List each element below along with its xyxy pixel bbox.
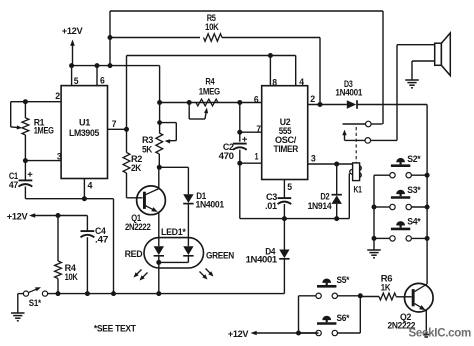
- svg-text:.01: .01: [265, 201, 278, 212]
- svg-text:1MEG: 1MEG: [34, 126, 54, 137]
- svg-text:2K: 2K: [131, 163, 141, 174]
- svg-text:.47: .47: [95, 235, 108, 246]
- svg-text:1K: 1K: [381, 283, 391, 294]
- svg-text:S2*: S2*: [407, 154, 421, 165]
- svg-text:1MEG: 1MEG: [199, 87, 220, 98]
- svg-text:47: 47: [9, 180, 18, 191]
- svg-text:S3*: S3*: [407, 185, 421, 196]
- svg-text:6: 6: [254, 94, 259, 105]
- svg-text:S1*: S1*: [29, 298, 42, 309]
- svg-text:3: 3: [311, 154, 316, 165]
- svg-text:+12V: +12V: [7, 212, 28, 223]
- svg-text:2N2222: 2N2222: [125, 222, 151, 233]
- svg-text:2: 2: [55, 91, 60, 102]
- svg-text:K1: K1: [354, 184, 363, 195]
- svg-text:+12V: +12V: [62, 26, 83, 37]
- svg-text:SeekIC.com: SeekIC.com: [409, 326, 472, 340]
- svg-text:GREEN: GREEN: [206, 251, 234, 262]
- svg-text:10K: 10K: [205, 22, 219, 33]
- svg-text:5K: 5K: [142, 145, 152, 156]
- svg-text:*SEE TEXT: *SEE TEXT: [94, 324, 136, 335]
- svg-text:LED1*: LED1*: [161, 227, 186, 238]
- svg-text:TIMER: TIMER: [274, 144, 299, 155]
- svg-text:3: 3: [57, 152, 62, 163]
- svg-text:7: 7: [256, 124, 260, 135]
- svg-text:S4*: S4*: [407, 217, 421, 228]
- svg-text:10K: 10K: [65, 272, 78, 283]
- svg-text:1N914: 1N914: [308, 201, 333, 212]
- svg-text:RED: RED: [125, 249, 143, 260]
- svg-text:LM3905: LM3905: [69, 128, 100, 139]
- svg-text:S6*: S6*: [337, 313, 350, 324]
- svg-text:+12V: +12V: [228, 329, 249, 340]
- svg-text:U1: U1: [79, 117, 91, 128]
- svg-text:S5*: S5*: [337, 275, 350, 286]
- svg-text:470: 470: [219, 151, 234, 162]
- svg-text:7: 7: [112, 119, 116, 130]
- svg-text:1N4001: 1N4001: [196, 200, 225, 211]
- svg-text:2: 2: [310, 94, 315, 105]
- svg-text:1N4001: 1N4001: [246, 255, 278, 266]
- svg-text:1N4001: 1N4001: [335, 88, 363, 99]
